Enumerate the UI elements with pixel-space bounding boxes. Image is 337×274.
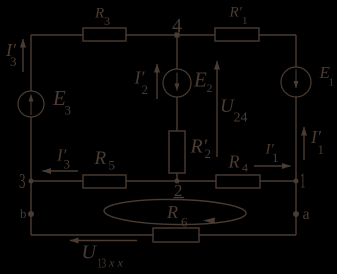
svg-text:a: a xyxy=(303,206,310,223)
svg-text:R: R xyxy=(94,6,104,22)
svg-text:1: 1 xyxy=(242,15,248,27)
node 1 xyxy=(294,179,299,184)
wire middle branch below R2' xyxy=(176,173,178,181)
wire left vertical upper xyxy=(30,35,32,91)
wire middle branch upper xyxy=(176,35,178,69)
svg-text:13: 13 xyxy=(98,257,107,272)
svg-text:E: E xyxy=(193,68,207,92)
source E3 xyxy=(18,91,44,117)
svg-text:x: x xyxy=(108,256,115,270)
current arrow I3' (middle left, pointing left) xyxy=(43,170,79,172)
node a xyxy=(293,211,299,217)
svg-text:2: 2 xyxy=(207,81,213,95)
resistor R6 xyxy=(153,228,199,242)
svg-text:3: 3 xyxy=(104,14,110,28)
resistor R3 xyxy=(83,28,126,41)
wire right vertical upper xyxy=(295,35,297,67)
wire right vertical lower xyxy=(295,97,297,235)
source E2 xyxy=(163,69,191,97)
node 3 xyxy=(29,179,34,184)
wire left vertical lower xyxy=(30,117,32,235)
wire middle branch between E2 and R2' xyxy=(176,97,178,131)
wire top-left: node4 corner to left xyxy=(31,34,83,36)
wire middle horizontal: node2 to R4 xyxy=(177,180,216,182)
wire bottom: R6 to right xyxy=(199,234,296,236)
svg-text:1: 1 xyxy=(318,142,325,157)
resistor R4 xyxy=(216,175,260,188)
wire middle horizontal: node3 to R5 xyxy=(31,180,83,182)
svg-text:5: 5 xyxy=(109,158,116,173)
wire middle horizontal: R5 to node2 xyxy=(126,180,177,182)
source E1 xyxy=(281,67,311,97)
svg-text:3: 3 xyxy=(64,157,71,172)
loop arrow ellipse around R6 xyxy=(104,198,246,225)
svg-text:x: x xyxy=(117,256,124,270)
wire bottom: left to R6 xyxy=(31,234,153,236)
resistor R1' xyxy=(215,28,259,41)
svg-text:2: 2 xyxy=(205,146,212,161)
resistor R2' (vertical) xyxy=(169,131,185,173)
current arrow I1' (right vertical) xyxy=(303,127,305,160)
wire top far right corner xyxy=(259,34,296,36)
svg-text:1: 1 xyxy=(329,77,335,89)
wire middle horizontal: R4 to node1 xyxy=(260,180,296,182)
svg-text:R′: R′ xyxy=(229,5,243,21)
svg-text:b: b xyxy=(20,206,27,221)
svg-text:6: 6 xyxy=(181,215,188,230)
resistor R5 xyxy=(83,175,126,188)
node b xyxy=(28,211,34,217)
node 2 xyxy=(175,179,180,184)
svg-text:24: 24 xyxy=(234,111,248,126)
svg-text:3: 3 xyxy=(19,169,26,193)
svg-text:R: R xyxy=(166,202,178,222)
voltage arrow U24 xyxy=(216,61,218,157)
wire top-mid: R3 to node 4 xyxy=(126,34,177,36)
current arrow I3' (top left) xyxy=(22,39,24,72)
svg-text:2: 2 xyxy=(142,82,149,97)
svg-text:3: 3 xyxy=(65,103,72,118)
svg-text:1: 1 xyxy=(300,169,306,193)
current arrow I1' (middle right, pointing right) xyxy=(254,165,291,167)
current arrow I2' xyxy=(156,64,158,99)
svg-text:U: U xyxy=(82,242,98,264)
svg-text:4: 4 xyxy=(242,161,248,175)
svg-text:3: 3 xyxy=(10,54,17,69)
wire top-right: node4 to R1' xyxy=(177,34,215,36)
voltage arrow U13xx (bottom, pointing left) xyxy=(70,240,137,242)
svg-text:R: R xyxy=(94,148,107,169)
svg-text:R: R xyxy=(228,152,240,172)
svg-text:4: 4 xyxy=(172,15,182,37)
node 4 xyxy=(175,33,180,38)
svg-text:1: 1 xyxy=(272,150,279,165)
